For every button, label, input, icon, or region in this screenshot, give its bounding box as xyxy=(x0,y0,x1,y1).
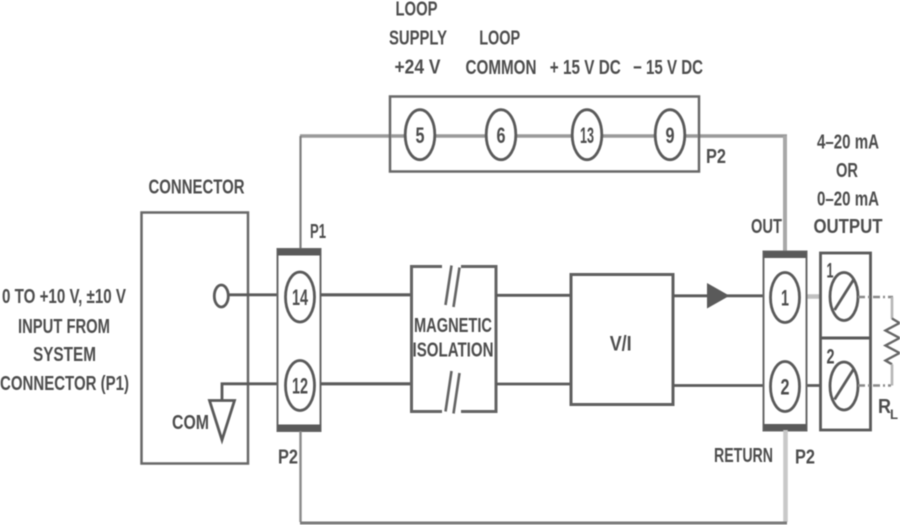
arrowhead on output wire xyxy=(707,283,730,309)
wire dash-dot to load bottom xyxy=(858,384,891,386)
wire V/I to OUT pin 1 xyxy=(673,294,764,297)
wire pin 12 to magnetic isolation xyxy=(321,382,412,385)
svg-text:CONNECTOR (P1): CONNECTOR (P1) xyxy=(0,373,129,395)
wire magnetic isolation to V/I bottom xyxy=(496,383,571,386)
svg-text:MAGNETIC: MAGNETIC xyxy=(414,315,492,337)
connector box xyxy=(142,213,249,464)
wire pin 12 to COM xyxy=(222,384,411,400)
svg-text:9: 9 xyxy=(666,123,675,148)
svg-text:13: 13 xyxy=(580,123,594,148)
terminal cell number 2 xyxy=(827,346,835,369)
magnetic isolation box xyxy=(412,267,497,412)
pin 5 xyxy=(405,110,435,160)
wire bottom return horizontal xyxy=(300,522,787,525)
wire return vertical bottom right xyxy=(783,430,788,522)
svg-text:12: 12 xyxy=(292,374,308,399)
wire dash-dot to load top xyxy=(858,296,893,298)
wire OUT pin 2 to load terminal stub xyxy=(806,384,834,387)
svg-text:P2: P2 xyxy=(278,447,298,469)
svg-text:2: 2 xyxy=(781,375,790,400)
wire loop supply horizontal xyxy=(300,134,787,138)
pin 2 xyxy=(771,362,800,412)
input label text xyxy=(0,286,129,395)
svg-text:OUTPUT: OUTPUT xyxy=(814,216,883,238)
svg-text:14: 14 xyxy=(292,285,308,310)
pin 12 xyxy=(286,361,315,411)
svg-text:COM: COM xyxy=(172,412,209,434)
wire P1 riser vertical xyxy=(299,136,301,251)
svg-text:LOOP: LOOP xyxy=(396,0,438,21)
svg-text:− 15 V DC: − 15 V DC xyxy=(633,57,703,79)
label LOOP SUPPLY +24 V xyxy=(389,0,447,79)
svg-text:INPUT FROM: INPUT FROM xyxy=(18,316,110,338)
label P2 right strip xyxy=(795,447,815,469)
pin 1 xyxy=(771,273,800,323)
label 4-20 mA OR 0-20 mA OUTPUT xyxy=(814,132,883,239)
power connector P2 box xyxy=(390,97,699,172)
ground COM triangle xyxy=(210,401,235,441)
wire V/I to OUT pin 2 xyxy=(673,384,764,387)
label LOOP COMMON xyxy=(466,28,537,80)
wire loop return vertical right xyxy=(783,136,787,255)
svg-text:2: 2 xyxy=(827,346,835,369)
svg-text:ISOLATION: ISOLATION xyxy=(413,340,494,362)
output terminal box xyxy=(821,253,871,430)
svg-text:P2: P2 xyxy=(795,447,815,469)
connector strip P1/P2 left xyxy=(278,249,321,431)
label OUT xyxy=(751,216,782,238)
label P2 left strip xyxy=(278,447,298,469)
label +15 V DC xyxy=(550,57,621,79)
svg-text:4–20 mA: 4–20 mA xyxy=(817,132,879,154)
isolation barrier slashes top xyxy=(446,266,460,308)
wire input terminal to pin 14 xyxy=(228,293,411,296)
wire pin 14 to magnetic isolation xyxy=(321,293,412,296)
svg-text:CONNECTOR: CONNECTOR xyxy=(149,177,245,199)
svg-text:RETURN: RETURN xyxy=(714,445,773,467)
pin 9 xyxy=(655,110,685,160)
svg-text:1: 1 xyxy=(781,286,789,311)
svg-text:0 TO +10 V, ±10 V: 0 TO +10 V, ±10 V xyxy=(2,286,126,308)
input terminal node xyxy=(214,285,228,307)
label RETURN xyxy=(714,445,773,467)
label CONNECTOR xyxy=(149,177,245,199)
svg-text:P2: P2 xyxy=(706,146,726,168)
svg-text:P1: P1 xyxy=(310,221,326,243)
svg-text:SYSTEM: SYSTEM xyxy=(33,344,96,366)
svg-text:0–20 mA: 0–20 mA xyxy=(817,189,879,211)
svg-text:+ 15 V DC: + 15 V DC xyxy=(550,57,621,79)
load resistor RL xyxy=(886,297,900,386)
label -15 V DC xyxy=(633,57,703,79)
label P2 top connector xyxy=(706,146,726,168)
svg-text:6: 6 xyxy=(497,123,506,148)
terminal screw 1 xyxy=(830,273,858,321)
terminal cell number 1 xyxy=(827,260,834,283)
svg-text:OUT: OUT xyxy=(751,216,782,238)
svg-text:5: 5 xyxy=(416,123,425,148)
svg-text:SUPPLY: SUPPLY xyxy=(389,28,447,50)
isolation barrier slashes bottom xyxy=(446,371,460,414)
pin 13 xyxy=(572,110,602,160)
svg-text:OR: OR xyxy=(836,160,858,182)
svg-text:COMMON: COMMON xyxy=(466,57,537,79)
pin 14 xyxy=(286,272,315,322)
svg-text:+24 V: +24 V xyxy=(395,57,442,79)
label RL xyxy=(878,396,898,422)
V/I converter box xyxy=(571,275,673,405)
svg-text:LOOP: LOOP xyxy=(479,28,520,50)
pin 6 xyxy=(486,110,516,160)
wire P2 vertical bottom left xyxy=(299,431,301,522)
wire OUT pin 1 to load terminal stub light xyxy=(806,294,832,299)
svg-text:V/I: V/I xyxy=(610,333,632,356)
wire magnetic isolation to V/I top xyxy=(496,294,571,297)
label P1 xyxy=(310,221,326,243)
svg-text:L: L xyxy=(890,406,898,422)
connector strip OUT/RETURN xyxy=(764,252,807,431)
svg-text:1: 1 xyxy=(827,260,834,283)
terminal screw 2 xyxy=(830,362,858,410)
label COM xyxy=(172,412,209,434)
